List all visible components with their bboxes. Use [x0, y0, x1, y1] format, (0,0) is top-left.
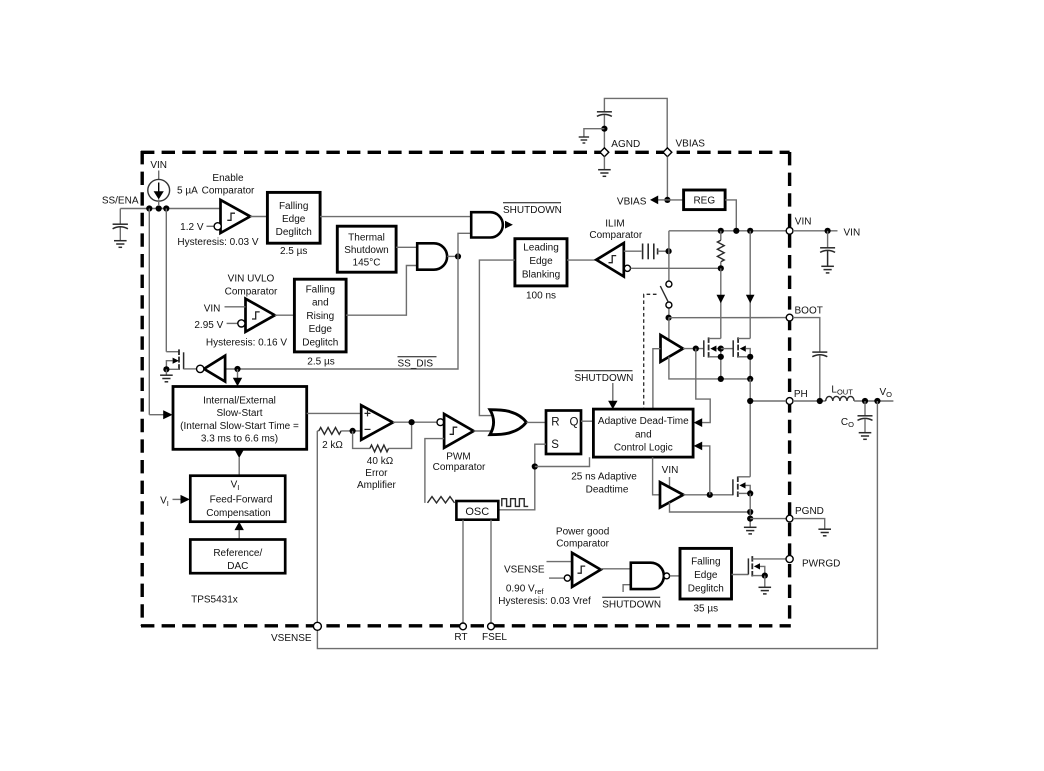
svg-text:Adaptive Dead-Time: Adaptive Dead-Time [598, 416, 689, 427]
wire 2.95V stub [227, 322, 238, 324]
svg-text:Error: Error [365, 468, 388, 479]
svg-text:Shutdown: Shutdown [344, 245, 388, 256]
wire BOOT pin to bootstrap capacitor [793, 318, 820, 352]
svg-text:Blanking: Blanking [522, 269, 560, 280]
pin AGND (diamond on top border) [600, 148, 609, 157]
latch U6 RS [546, 411, 581, 455]
pin VIN on right border [786, 227, 793, 234]
junction node SS_DIS source [455, 253, 461, 259]
wire and arrow VI into feed-forward box [173, 498, 182, 500]
svg-text:Deglitch: Deglitch [688, 583, 724, 594]
block Internal/External Slow-Start [173, 387, 307, 450]
wire power good output to NAND [601, 568, 631, 570]
transistor Q1 high-side MOSFET [704, 337, 724, 379]
svg-text:FSEL: FSEL [482, 632, 507, 643]
wire x149 down to slow-start input [149, 209, 163, 415]
capacitor on SS/ENA [113, 224, 128, 229]
junction dot battery node [666, 248, 672, 254]
svg-text:Falling: Falling [306, 285, 335, 296]
wire BOOT rail to pin [669, 317, 787, 319]
wire VIN stub into UVLO [225, 306, 246, 308]
svg-text:Edge: Edge [309, 324, 333, 335]
current source I1 5uA [148, 179, 170, 206]
wire VSENSE vertical from 2k resistor to bottom pin [316, 431, 318, 623]
resistor R2 40 kOhm feedback [353, 422, 412, 452]
svg-text:1.2 V: 1.2 V [180, 222, 204, 233]
svg-text:Edge: Edge [529, 256, 553, 267]
wire PH rail down to PH pin wire [749, 379, 751, 401]
wire PGND external to ground [793, 519, 825, 530]
svg-text:VIN UVLO: VIN UVLO [228, 273, 275, 284]
wire gate-sense to adaptive logic input 2 with arrow [702, 446, 710, 495]
op-amp U4 Error Amplifier [361, 405, 393, 440]
wire UVLO deglitch output up to AND gate [346, 266, 417, 316]
pin PWRGD on right border [786, 555, 793, 562]
svg-text:Deglitch: Deglitch [276, 227, 312, 238]
svg-text:Deadtime: Deadtime [586, 485, 629, 496]
wire ILIM top input to offset battery [624, 250, 642, 252]
junction dot external VIN [825, 228, 831, 234]
capacitor CO output [858, 401, 873, 433]
wire UVLO output [275, 314, 295, 316]
wire ILIM comparator output to LEB [567, 259, 596, 261]
svg-text:VBIAS: VBIAS [617, 196, 647, 207]
svg-text:Reference/: Reference/ [213, 548, 262, 559]
wire external VIN to input cap [827, 231, 829, 248]
svg-text:RT: RT [454, 632, 467, 643]
wire PH pin node [750, 400, 786, 402]
svg-text:VIN: VIN [844, 227, 861, 238]
pin PH on right border [786, 398, 793, 405]
buffer U8 high-side gate driver [661, 335, 684, 362]
wire SS_DIS run down and left to inverter [225, 256, 458, 369]
svg-text:PH: PH [794, 389, 808, 400]
svg-text:S: S [551, 439, 559, 451]
block Falling and Rising Edge Deglitch (2.5 us) [294, 279, 346, 352]
wire LEB output down to OR gate [479, 260, 515, 416]
svg-text:VIN: VIN [204, 304, 221, 315]
inductor LOUT [826, 396, 854, 401]
ground below VIN cap [821, 266, 834, 273]
svg-text:PWM: PWM [446, 452, 470, 463]
junction dot on S line [532, 463, 538, 469]
svg-text:and: and [635, 429, 652, 440]
wire VIN stub to current source [158, 171, 160, 181]
wire NAND output to deglitch [670, 575, 680, 577]
wire gate-sense to adaptive logic input 1 with arrow [696, 349, 710, 423]
block Falling Edge Deglitch (2.5 us) [267, 192, 320, 243]
block OSC oscillator [456, 501, 498, 520]
sawtooth waveform symbol [428, 497, 455, 503]
svg-text:Amplifier: Amplifier [357, 480, 397, 491]
capacitor VBIAS bypass [597, 112, 612, 117]
svg-text:2.5 µs: 2.5 µs [280, 246, 307, 257]
inverting bubble on enable comparator [214, 223, 221, 230]
svg-text:Edge: Edge [282, 214, 306, 225]
svg-text:Edge: Edge [694, 570, 718, 581]
pin FSEL on bottom border [488, 623, 495, 630]
junction dot on SS_DIS at slow-start [234, 366, 240, 372]
svg-text:Comparator: Comparator [202, 186, 255, 197]
arrow into slow-start left edge [163, 410, 172, 419]
pin RT on bottom border [460, 623, 467, 630]
svg-text:Leading: Leading [523, 243, 559, 254]
wire VIN feed to high-side FET Q2 drain with arrow [749, 231, 751, 339]
svg-text:Power good: Power good [556, 526, 609, 537]
junction dot on low-side gate drive [707, 492, 713, 498]
svg-text:VSENSE: VSENSE [271, 633, 312, 644]
svg-text:R: R [551, 417, 559, 429]
svg-text:Feed-Forward: Feed-Forward [210, 495, 273, 506]
wire deglitch output to shutdown AND gate [320, 216, 471, 218]
wire thermal shutdown to AND gate [396, 246, 417, 248]
arrow from feed-forward into slow-start bottom [235, 450, 244, 458]
junction dots on SS/ENA rail [146, 205, 169, 211]
wire VBIAS pin down to REG output node [666, 157, 668, 200]
svg-text:VIN: VIN [795, 216, 812, 227]
wire REG input from VIN rail [725, 200, 736, 231]
svg-text:Falling: Falling [691, 557, 720, 568]
battery offset source for ILIM [643, 244, 658, 260]
svg-text:5 µA: 5 µA [177, 186, 198, 197]
wire 1.2V stub [207, 225, 215, 227]
comparator U10 power good [564, 553, 600, 587]
wire RT from oscillator to pin [462, 520, 464, 623]
ground below CO [859, 433, 872, 440]
svg-text:Q: Q [570, 417, 579, 429]
svg-text:OSC: OSC [465, 506, 489, 518]
wire low-side driver output to Q3 gate [683, 494, 733, 496]
wire junction up into AND1 [458, 233, 471, 256]
wire PWM comparator ramp input from oscillator sawtooth [425, 439, 444, 503]
wire PH pin down to Q3 drain [749, 401, 751, 477]
svg-text:SS_DIS: SS_DIS [398, 359, 434, 370]
ground below AGND pin [598, 170, 611, 177]
svg-text:BOOT: BOOT [795, 305, 823, 316]
ground below Q5 [160, 375, 173, 382]
svg-text:PWRGD: PWRGD [802, 559, 840, 570]
capacitor input bypass at VIN [820, 248, 835, 266]
junction dot on AGND cap leg [601, 126, 607, 132]
block VI Feed-Forward Compensation [190, 476, 285, 522]
resistor R1 2 kOhm [317, 428, 361, 435]
junction dot on error amp output [409, 419, 415, 425]
wire high-side driver output to Q1 gate [683, 348, 704, 350]
ground external PGND [818, 529, 831, 536]
svg-text:Hysteresis: 0.03 Vref: Hysteresis: 0.03 Vref [498, 596, 591, 607]
wire PGND to pin [750, 518, 786, 520]
pin PGND on right border [786, 515, 793, 522]
svg-text:Comparator: Comparator [225, 286, 278, 297]
wire VIN stub into low-side driver [669, 477, 671, 488]
svg-text:2.5 µs: 2.5 µs [307, 357, 334, 368]
svg-text:VIN: VIN [662, 465, 679, 476]
ground at Q4 source [759, 587, 772, 594]
wire enable comparator output [250, 216, 267, 218]
wire AND2 output to junction [447, 255, 458, 257]
wire latch S input from oscillator [498, 444, 546, 510]
gate NAND1 power good [631, 563, 670, 589]
wire adaptive logic to high-side driver input [653, 349, 661, 409]
ground at Q3 source [744, 527, 757, 534]
svg-text:REG: REG [693, 195, 715, 206]
wire PWM output into OR gate [474, 430, 493, 432]
wire Q3 source to PGND [749, 493, 751, 527]
transistor Q3 low-side MOSFET [733, 477, 753, 497]
svg-text:AGND: AGND [611, 139, 640, 150]
svg-text:Rising: Rising [306, 311, 334, 322]
svg-text:Hysteresis: 0.03 V: Hysteresis: 0.03 V [177, 237, 258, 248]
junction dots on PH rail [718, 376, 724, 382]
junction dot at feedback [874, 398, 880, 404]
wire slow-start output to error amplifier [307, 412, 362, 414]
block Leading Edge Blanking (100 ns) [515, 239, 567, 286]
svg-text:Falling: Falling [279, 201, 308, 212]
junction dot on gate drive [693, 346, 699, 352]
wire and arrow from SS_DIS into slow-start top [237, 369, 239, 379]
svg-text:Deglitch: Deglitch [302, 337, 338, 348]
wire adaptive logic to low-side driver input [653, 457, 660, 495]
capacitor bootstrap [812, 352, 827, 401]
block Reference/DAC [190, 540, 285, 574]
pin VBIAS (diamond on top border) [663, 148, 672, 157]
wire PH external to inductor [793, 400, 826, 402]
svg-text:Thermal: Thermal [348, 233, 385, 244]
svg-text:DAC: DAC [227, 561, 248, 572]
wire oscillator line to adaptive logic bottom [535, 457, 590, 466]
transistor Q2 high-side MOSFET (parallel) [733, 337, 753, 379]
svg-text:SHUTDOWN: SHUTDOWN [503, 205, 562, 216]
wire 0.90 Vref stub [549, 577, 564, 579]
wire VBIAS node to arrow [658, 199, 668, 201]
arrow VBIAS (pointing left) [650, 196, 658, 205]
svg-text:PGND: PGND [795, 506, 824, 517]
wire AGND bypass top loop [604, 98, 667, 148]
wire error amp output to PWM comparator [393, 421, 437, 423]
svg-text:VSENSE: VSENSE [504, 564, 545, 575]
block REG regulator [684, 190, 726, 210]
block Falling Edge Deglitch (35 us) [680, 548, 732, 599]
arrow from reference/DAC into feed-forward bottom [238, 529, 240, 540]
junction dot BOOT rail [666, 315, 672, 321]
wire VIN pin to external node [793, 230, 838, 232]
switch S1 (ILIM test) [660, 281, 672, 308]
svg-text:Comparator: Comparator [589, 230, 642, 241]
buffer U9 low-side gate driver [660, 482, 683, 507]
svg-text:35 µs: 35 µs [693, 604, 718, 615]
svg-text:VBIAS: VBIAS [676, 139, 706, 150]
junction dot PGND node [747, 516, 753, 522]
ground below SS/ENA capacitor [114, 241, 127, 248]
dashed control link from ILIM switch to adaptive logic [644, 294, 657, 409]
transistor Q5 slow-start discharge MOSFET [163, 349, 183, 375]
svg-text:SS/ENA: SS/ENA [102, 196, 139, 207]
arrow SHUTDOWN output [505, 221, 513, 229]
wire VIN feed to high-side FET Q1 drain with arrow [720, 268, 722, 338]
wire BOOT node down into high-side driver [668, 318, 670, 341]
bubble on ILIM comparator output [624, 265, 630, 271]
pin BOOT on right border [786, 314, 793, 321]
wire rail corner down to switch [668, 231, 670, 318]
wire VSENSE into power good comparator [547, 561, 573, 563]
junction dot driver return [747, 509, 753, 515]
svg-text:3.3 ms to 6.6 ms): 3.3 ms to 6.6 ms) [201, 434, 278, 445]
junction dot VBIAS node [664, 197, 670, 203]
wire AGND pin to ground [603, 157, 605, 170]
junction dot at resistor bottom [718, 265, 724, 271]
ground small left of AGND [579, 137, 589, 143]
svg-text:Comparator: Comparator [556, 539, 609, 550]
gate AND1 (shutdown) [471, 212, 503, 237]
wire Q1 body junction to Q2 gate [721, 348, 733, 350]
clock waveform symbol [502, 499, 528, 507]
wire VO feedback down and across to VSENSE [317, 401, 877, 649]
svg-text:145°C: 145°C [353, 257, 381, 268]
svg-text:100 ns: 100 ns [526, 290, 556, 301]
svg-text:Compensation: Compensation [206, 508, 270, 519]
junction dot PH internal [747, 398, 753, 404]
wire stub to small ground [584, 129, 605, 137]
svg-text:40 kΩ: 40 kΩ [367, 456, 394, 467]
svg-text:SHUTDOWN: SHUTDOWN [575, 373, 634, 384]
comparator U5 PWM Comparator [437, 414, 474, 448]
junction dot at error amp inverting input [350, 428, 356, 434]
wire low-side driver return rail [670, 502, 751, 512]
wire FSEL from oscillator to pin [490, 520, 492, 623]
junction dot at CO [862, 398, 868, 404]
svg-text:SHUTDOWN: SHUTDOWN [602, 600, 661, 611]
block Thermal Shutdown 145C [337, 226, 396, 272]
svg-text:VIN: VIN [150, 160, 167, 171]
svg-text:and: and [312, 298, 329, 309]
junction dot bootstrap at PH [817, 398, 823, 404]
svg-text:2 kΩ: 2 kΩ [322, 440, 343, 451]
svg-text:Control Logic: Control Logic [614, 443, 673, 454]
IC boundary dashed box [141, 151, 791, 626]
svg-text:25 ns Adaptive: 25 ns Adaptive [571, 471, 637, 482]
wire VBIAS node to REG [667, 199, 683, 201]
svg-text:Enable: Enable [212, 173, 244, 184]
wire OR output to latch R [526, 421, 546, 423]
svg-text:2.95 V: 2.95 V [194, 320, 223, 331]
wire and arrow SHUTDOWN into adaptive logic [612, 383, 614, 402]
wire driver return to PH rail [669, 357, 750, 379]
wire deglitch to Q4 gate [732, 574, 749, 576]
wire Q5 gate lead [184, 368, 197, 370]
svg-text:ILIM: ILIM [605, 219, 624, 230]
inverter U3 (SS_DIS) [197, 356, 226, 382]
junction dots on VIN rail [718, 228, 754, 234]
wire inductor to VO [854, 400, 893, 402]
inverting bubble on UVLO comparator [238, 320, 245, 327]
svg-text:Internal/External: Internal/External [203, 396, 276, 407]
svg-text:(Internal Slow-Start Time =: (Internal Slow-Start Time = [180, 421, 299, 432]
pin VSENSE on bottom border [313, 622, 321, 630]
wire battery to VIN sense line [658, 250, 669, 252]
wire NAND lower input stub [623, 585, 631, 592]
gate OR1 [490, 410, 526, 435]
transistor Q4 PWRGD open-drain MOSFET [748, 556, 786, 587]
block Adaptive Dead-Time and Control Logic [593, 409, 693, 457]
wire VIN rail [669, 230, 787, 232]
wire SS/ENA rail [120, 209, 220, 241]
wire x166 down to discharge MOSFET drain [166, 209, 179, 352]
resistor R3 current sense [717, 231, 724, 268]
svg-text:Hysteresis: 0.16 V: Hysteresis: 0.16 V [206, 338, 287, 349]
svg-text:TPS5431x: TPS5431x [191, 595, 238, 606]
gate AND2 (thermal/UVLO) [417, 243, 447, 269]
wire ILIM lower input to resistor bottom [631, 267, 721, 269]
svg-text:Comparator: Comparator [433, 462, 486, 473]
wire latch Q to adaptive logic [581, 420, 593, 422]
svg-text:Slow-Start: Slow-Start [216, 408, 262, 419]
